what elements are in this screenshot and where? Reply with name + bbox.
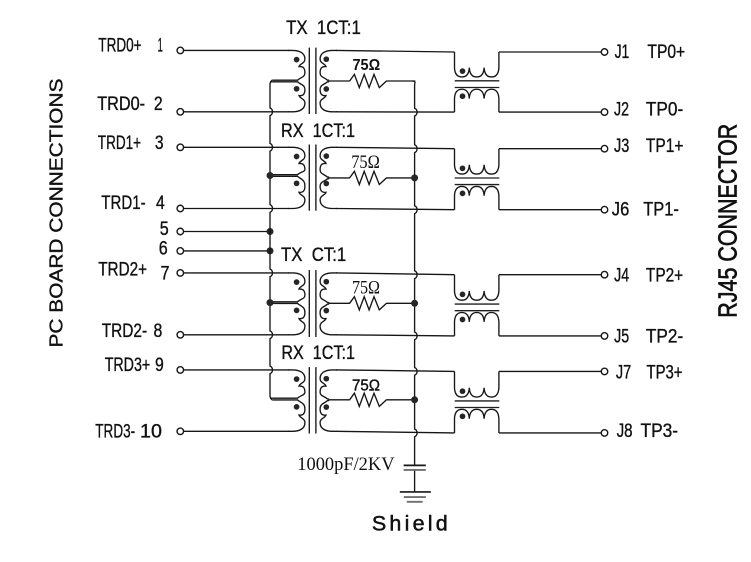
wire T1 TX 1CT:1 secondary center tap to resistor R1 [328, 80, 350, 82]
pin 7 terminal circle [177, 270, 184, 277]
svg-text:TP1-: TP1- [643, 199, 679, 220]
wire T2 center tap stubs [270, 174, 272, 176]
pin 9 terminal circle [177, 367, 184, 374]
wire T4 center tap upper stub [270, 397, 272, 399]
svg-text:J3: J3 [614, 136, 629, 157]
node pin 5 junction [267, 228, 274, 235]
svg-text:TP3-: TP3- [641, 421, 679, 442]
wire pin 2 to T1 TX 1CT:1 primary bottom [184, 111, 289, 113]
resistor R3 body [350, 297, 387, 310]
node resistor R2 junction [411, 174, 418, 181]
pin 6 terminal circle [177, 248, 184, 255]
transformer T1 TX 1CT:1 secondary bottom winding [320, 82, 337, 112]
choke L1 core [455, 80, 500, 82]
wire choke L4 to J7 [499, 370, 601, 372]
jack J8 terminal circle [601, 430, 608, 437]
svg-text:75Ω: 75Ω [352, 378, 380, 395]
wire T4 RX 1CT:1 secondary bottom to choke L4 [336, 431, 455, 433]
resistor R2 body [350, 171, 387, 184]
choke L2 phase dots [460, 165, 466, 171]
wire capacitor C1 to ground [414, 471, 416, 492]
choke L2 core [455, 177, 500, 179]
transformer T2 RX 1CT:1 secondary bottom winding [320, 179, 337, 209]
transformer T2 RX 1CT:1 phase dots [294, 154, 300, 160]
svg-text:1: 1 [158, 36, 163, 57]
svg-text:J6: J6 [612, 199, 630, 220]
svg-text:3: 3 [155, 133, 164, 154]
svg-text:75Ω: 75Ω [352, 278, 380, 299]
choke L4 core [455, 400, 500, 402]
jack J1 terminal circle [601, 49, 608, 56]
node T3 center tap junction [267, 299, 274, 306]
wire T1 TX 1CT:1 secondary bottom to choke L1 [336, 111, 455, 113]
resistor R4 body [350, 393, 387, 406]
svg-text:RX 1CT:1: RX 1CT:1 [281, 121, 355, 142]
svg-text:TRD0-: TRD0- [97, 94, 145, 115]
svg-text:J7: J7 [616, 363, 631, 384]
svg-text:RJ45 CONNECTOR: RJ45 CONNECTOR [713, 124, 743, 318]
svg-text:TRD3+: TRD3+ [105, 355, 151, 376]
wire pin 9 to T4 RX 1CT:1 primary top [184, 369, 289, 371]
wire resistor R3 to common rail [386, 302, 414, 304]
choke L2 top winding [455, 149, 499, 174]
transformer T3 TX CT:1 primary bottom winding [272, 303, 305, 334]
svg-text:J4: J4 [614, 266, 629, 287]
transformer T1 TX 1CT:1 primary bottom winding [272, 82, 305, 112]
svg-text:TRD1+: TRD1+ [98, 133, 141, 154]
wire pin 5 to center-tap rail [184, 231, 270, 233]
wire pin 7 to T3 TX CT:1 primary top [184, 272, 289, 274]
svg-text:10: 10 [140, 422, 162, 443]
jack J5 terminal circle [601, 333, 608, 340]
wire T1 center tap lower stub [270, 81, 272, 83]
pin 3 terminal circle [177, 144, 184, 151]
wire T3 TX CT:1 secondary bottom to choke L3 [336, 335, 455, 336]
svg-text:J2: J2 [614, 100, 629, 121]
wire choke L2 to J6 [499, 209, 601, 211]
svg-text:J5: J5 [614, 326, 629, 347]
pin 4 terminal circle [177, 205, 184, 212]
svg-text:J1: J1 [615, 42, 630, 63]
choke L3 top winding [455, 275, 499, 301]
wire resistor R2 to common rail [386, 177, 414, 179]
wire T2 RX 1CT:1 secondary center tap to resistor R2 [328, 177, 350, 179]
choke L1 bottom winding [455, 89, 499, 112]
transformer T1 TX 1CT:1 primary top winding [272, 50, 305, 80]
transformer T4 RX 1CT:1 primary bottom winding [272, 400, 305, 431]
node T2 center tap junction [267, 172, 274, 179]
transformer T4 RX 1CT:1 primary top winding [272, 370, 305, 398]
transformer T1 TX 1CT:1 core [308, 48, 310, 114]
svg-text:75Ω: 75Ω [351, 152, 380, 173]
node resistor R3 junction [411, 300, 418, 307]
jack J4 terminal circle [601, 271, 608, 278]
choke L4 top winding [455, 371, 499, 397]
choke L2 bottom winding [455, 186, 499, 209]
wire pin 3 to T2 RX 1CT:1 primary top [184, 146, 289, 148]
svg-text:TP0-: TP0- [646, 100, 683, 121]
resistor R1 body [350, 74, 387, 87]
svg-text:TX 1CT:1: TX 1CT:1 [286, 18, 361, 39]
transformer T2 RX 1CT:1 primary top winding [272, 147, 305, 174]
jack J3 terminal circle [601, 145, 608, 152]
wire choke L2 to J3 [499, 148, 601, 150]
transformer T4 RX 1CT:1 secondary top winding [320, 370, 337, 399]
transformer T2 RX 1CT:1 core [308, 145, 310, 211]
wire T4 RX 1CT:1 secondary top to choke L4 [336, 370, 455, 372]
right termination common rail [412, 81, 417, 465]
svg-text:5: 5 [160, 219, 169, 240]
svg-text:TRD2-: TRD2- [102, 321, 147, 342]
wire T3 TX CT:1 secondary center tap to resistor R3 [328, 302, 350, 304]
svg-text:4: 4 [156, 193, 165, 214]
svg-text:TP1+: TP1+ [646, 136, 684, 157]
svg-text:8: 8 [154, 321, 163, 342]
transformer T4 RX 1CT:1 secondary bottom winding [320, 401, 337, 432]
wire choke L1 to J1 [499, 51, 601, 53]
svg-text:6: 6 [159, 239, 168, 260]
svg-text:75Ω: 75Ω [353, 57, 381, 74]
wire T2 RX 1CT:1 secondary bottom to choke L2 [336, 209, 455, 210]
capacitor C1 bottom plate [404, 469, 426, 471]
transformer T4 RX 1CT:1 phase dots [294, 376, 300, 382]
wire choke L3 to J4 [499, 274, 601, 276]
wire pin 6 to center-tap rail [184, 250, 270, 252]
wire pin 4 to T2 RX 1CT:1 primary bottom [184, 208, 289, 210]
transformer T3 TX CT:1 primary top winding [272, 273, 305, 302]
wire pin 10 to T4 RX 1CT:1 primary bottom [184, 430, 289, 432]
svg-text:RX 1CT:1: RX 1CT:1 [281, 343, 355, 364]
transformer T2 RX 1CT:1 secondary top winding [320, 147, 337, 177]
svg-text:1000pF/2KV: 1000pF/2KV [297, 454, 394, 475]
left center-tap rail [270, 80, 272, 400]
wire resistor R4 to common rail [386, 399, 414, 401]
svg-text:J8: J8 [617, 421, 633, 442]
choke L1 phase dots [460, 68, 466, 74]
node pin 6 junction [267, 247, 274, 254]
choke L4 bottom winding [455, 409, 499, 433]
node resistor R4 junction [411, 396, 418, 403]
jack J2 terminal circle [601, 109, 608, 116]
wire T3 TX CT:1 secondary top to choke L3 [336, 273, 455, 275]
wire T1 TX 1CT:1 secondary top to choke L1 [336, 50, 455, 52]
pin 8 terminal circle [177, 332, 184, 339]
transformer T4 RX 1CT:1 core [308, 367, 310, 433]
wire choke L1 to J2 [499, 111, 601, 113]
transformer T3 TX CT:1 secondary bottom winding [320, 304, 337, 335]
wire T4 RX 1CT:1 secondary center tap to resistor R4 [328, 399, 350, 401]
transformer T3 TX CT:1 secondary top winding [320, 273, 337, 303]
pin 5 terminal circle [177, 228, 184, 235]
choke L1 top winding [455, 52, 499, 77]
wire T3 center tap stubs [270, 301, 272, 303]
wire pin 8 to T3 TX CT:1 primary bottom [184, 334, 289, 336]
svg-text:TP2-: TP2- [646, 326, 683, 347]
svg-text:TP3+: TP3+ [647, 363, 683, 384]
jack J6 terminal circle [601, 206, 608, 213]
svg-text:7: 7 [161, 264, 170, 285]
transformer T3 TX CT:1 phase dots [294, 279, 300, 285]
wire T2 RX 1CT:1 secondary top to choke L2 [336, 147, 455, 148]
wire choke L3 to J5 [499, 335, 601, 337]
wire pin 1 to T1 TX 1CT:1 primary top [184, 49, 289, 51]
transformer T2 RX 1CT:1 primary bottom winding [272, 176, 305, 208]
wire choke L4 to J8 [499, 432, 601, 434]
svg-text:2: 2 [154, 94, 163, 115]
pin 1 terminal circle [177, 47, 184, 54]
svg-text:Shield: Shield [372, 512, 451, 536]
wire resistor R1 to common rail [386, 80, 415, 82]
ground shield symbol [400, 491, 431, 493]
svg-text:TP2+: TP2+ [646, 266, 683, 287]
choke L3 bottom winding [455, 313, 499, 336]
pin 2 terminal circle [177, 109, 184, 116]
svg-text:TRD2+: TRD2+ [98, 259, 147, 280]
jack J7 terminal circle [601, 368, 608, 375]
transformer T1 TX 1CT:1 phase dots [294, 57, 300, 63]
pin 10 terminal circle [177, 428, 184, 435]
capacitor C1 top plate [404, 464, 426, 466]
svg-text:TP0+: TP0+ [647, 42, 685, 63]
choke L3 core [455, 303, 500, 305]
svg-text:9: 9 [155, 355, 164, 376]
svg-text:TX CT:1: TX CT:1 [281, 245, 346, 266]
svg-text:TRD0+: TRD0+ [98, 36, 141, 57]
svg-text:TRD1-: TRD1- [101, 193, 145, 214]
transformer T3 TX CT:1 core [308, 270, 310, 337]
choke L4 phase dots [460, 388, 466, 394]
svg-text:TRD3-: TRD3- [95, 422, 135, 443]
choke L3 phase dots [460, 292, 466, 298]
svg-text:PC BOARD CONNECTIONS: PC BOARD CONNECTIONS [46, 79, 67, 348]
transformer T1 TX 1CT:1 secondary top winding [320, 50, 337, 80]
